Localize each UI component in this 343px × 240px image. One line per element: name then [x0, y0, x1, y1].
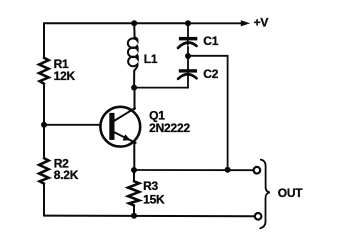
- junction node base tap: [41, 122, 47, 128]
- junction node emitter-R3: [131, 167, 137, 173]
- brace OUT: [260, 160, 270, 229]
- wire left rail lower: [43, 184, 45, 216]
- wire C-tap horizontal: [188, 55, 228, 57]
- junction node R3-bottom: [131, 213, 137, 219]
- wire bottom rail: [44, 215, 255, 218]
- svg-text:C2: C2: [203, 67, 218, 81]
- wire collector: [134, 88, 136, 109]
- junction node C1-C2: [185, 53, 191, 59]
- resistor R2: [39, 158, 49, 183]
- wire R3 bottom lead: [133, 205, 135, 216]
- wire +V arrow line: [188, 22, 242, 24]
- svg-text:+V: +V: [254, 16, 269, 30]
- wire left rail upper: [43, 23, 45, 58]
- resistor R3: [128, 181, 139, 205]
- wire emitter vertical: [133, 141, 135, 170]
- wire L1 bottom lead: [133, 71, 135, 88]
- svg-text:L1: L1: [144, 52, 158, 66]
- svg-text:2N2222: 2N2222: [149, 121, 190, 135]
- svg-text:C1: C1: [203, 34, 218, 48]
- wire base: [44, 124, 101, 126]
- terminal upper OUT: [254, 167, 261, 174]
- svg-text:12K: 12K: [54, 69, 76, 83]
- svg-text:R3: R3: [143, 179, 158, 193]
- svg-text:OUT: OUT: [278, 186, 304, 200]
- svg-text:15K: 15K: [143, 192, 165, 206]
- wire C-tap vertical: [227, 56, 229, 170]
- inductor L1: [128, 37, 138, 70]
- junction node L1-bottom: [131, 85, 137, 91]
- transistor Q1: [100, 107, 140, 147]
- junction node top-L1: [131, 20, 137, 26]
- junction node out-tap: [225, 167, 231, 173]
- wire left rail middle: [43, 84, 45, 158]
- wire R3 top lead: [133, 170, 135, 181]
- wire L1 top lead: [133, 23, 135, 37]
- wire output upper: [134, 169, 254, 171]
- resistor R1: [39, 58, 49, 84]
- junction node top-C1: [185, 20, 191, 26]
- capacitor C2: [178, 56, 197, 88]
- svg-text:8.2K: 8.2K: [54, 168, 79, 182]
- capacitor C1: [178, 23, 197, 56]
- +V arrowhead: [241, 20, 250, 26]
- wire top rail: [44, 22, 188, 24]
- wire L1-bottom to C2-bottom: [134, 87, 188, 89]
- terminal lower OUT: [255, 213, 262, 220]
